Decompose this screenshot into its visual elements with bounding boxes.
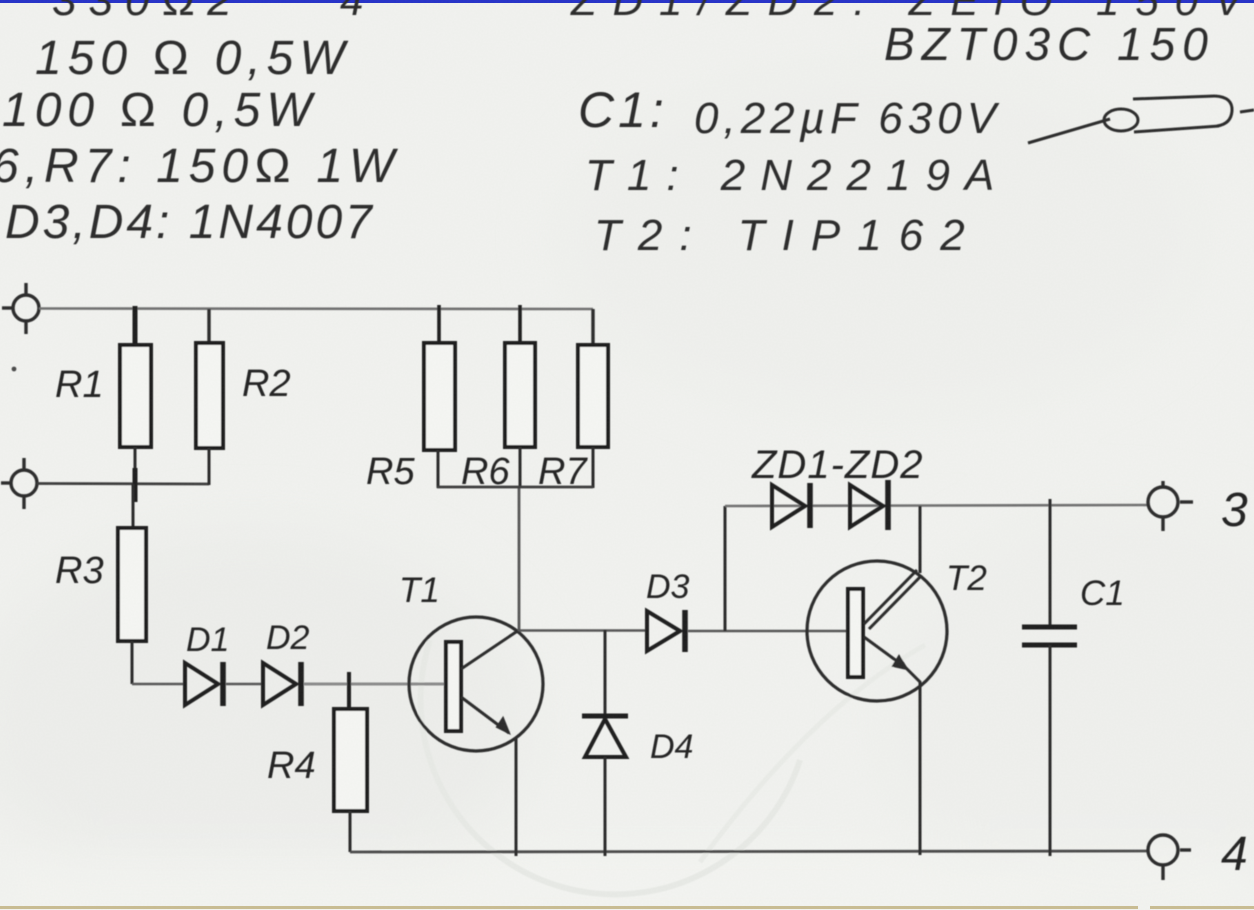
capacitor C1 — [1022, 499, 1077, 856]
diode D2 — [263, 662, 301, 706]
junction node (R1/R2/node2/R3) — [133, 468, 138, 502]
wire D1-D2 — [226, 683, 263, 686]
sketch of axial component next to C1 note — [1028, 96, 1254, 143]
node 3 terminal — [1148, 481, 1193, 531]
wire D3 to T2 base — [688, 630, 848, 633]
junction to D4 — [604, 630, 607, 716]
resistor R5 — [424, 305, 455, 488]
wire T1 collector up to R5-R7 rail — [518, 487, 521, 631]
resistor R2 — [196, 309, 223, 485]
diode D1 — [185, 662, 223, 706]
resistor R1 — [120, 306, 151, 485]
resistor R6 — [505, 305, 535, 488]
node 4 terminal — [1148, 835, 1191, 880]
wire D3 node up to zener branch — [724, 506, 727, 631]
zener ZD1 — [772, 483, 810, 528]
wire bottom rail — [350, 851, 1149, 852]
diode D3 — [647, 610, 685, 652]
wire node2 to R2 bottom — [37, 482, 209, 485]
resistor R4 — [334, 672, 367, 852]
node 1 terminal (top-left) — [2, 283, 39, 334]
transistor T1 — [409, 617, 543, 856]
wire T1 collector to D3 — [519, 629, 647, 632]
node 2 terminal (left) — [1, 458, 37, 509]
zener ZD2 — [850, 480, 888, 530]
wire T2 collector up to zener branch — [919, 506, 922, 573]
wire top rail — [39, 307, 593, 310]
wire D2 to T1 base — [304, 683, 447, 686]
resistor R7 — [578, 309, 608, 488]
resistor R3 — [118, 484, 146, 684]
wire R3 to D1 — [132, 683, 184, 686]
transistor T2 — [807, 561, 947, 855]
wire R5-R7 bottom bus — [437, 486, 593, 489]
wire zener branch top — [725, 505, 1149, 506]
diode D4 — [582, 716, 628, 856]
